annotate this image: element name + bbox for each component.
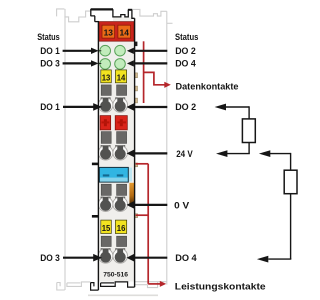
svg-text:13: 13 <box>104 27 114 37</box>
power jumper contact left lower (blade) <box>92 215 99 218</box>
label plate (red) <box>99 22 134 42</box>
data contact 1 (gold) <box>135 73 138 78</box>
LED DO2 <box>115 45 126 56</box>
svg-text:Status: Status <box>175 32 198 43</box>
clamp contact 0V right <box>113 197 128 212</box>
load circuit 2: arrow to 24V <box>259 150 270 157</box>
svg-text:750-516: 750-516 <box>103 272 128 279</box>
LED DO4 <box>115 59 126 70</box>
wire <box>268 258 291 260</box>
wire <box>248 143 250 154</box>
power jumper contact right lower (spring) <box>135 214 138 218</box>
arrow status DO2 (right) <box>127 48 134 54</box>
DIN rail edge (faint) <box>88 294 158 296</box>
arrow clamp DO4 (right) <box>127 254 135 262</box>
arrow status DO3 (left) <box>63 62 91 64</box>
svg-text:DO 1: DO 1 <box>40 46 60 57</box>
load circuit 1: arrow to 24V <box>216 150 227 157</box>
adjacent module outline left (gray) <box>57 9 91 290</box>
load circuit 2: arrow to DO4 <box>257 256 268 263</box>
clamp contact DO3 <box>98 248 113 263</box>
terminal label 14 (yellow) <box>115 70 126 83</box>
svg-text:DO 3: DO 3 <box>40 253 60 264</box>
svg-text:DO 4: DO 4 <box>175 59 196 70</box>
adjacent module outline right (gray) <box>132 9 172 287</box>
data contacts pointer (red) <box>144 41 165 103</box>
module body <box>98 21 134 282</box>
clamp contact DO1 <box>98 97 113 112</box>
marker 14 (orange) <box>118 25 131 38</box>
svg-text:0 V: 0 V <box>174 200 190 211</box>
power jumper contact left upper (blade) <box>92 163 99 166</box>
wire entry 0V row <box>101 184 111 195</box>
wire entry 13 <box>101 85 111 96</box>
arrow clamp DO3 (left) <box>63 257 94 259</box>
data contact 2 (gold) <box>135 86 138 91</box>
terminal label 16 (yellow) <box>115 220 126 233</box>
module outline (black) <box>91 9 135 290</box>
clamp contact 24V right <box>113 145 128 160</box>
power contacts pointer (red) <box>136 164 160 284</box>
red insert left <box>100 116 111 130</box>
load resistor 1 <box>242 119 255 143</box>
wire entry DO3/DO4 row <box>101 236 111 246</box>
terminal label 13 (yellow) <box>101 70 112 83</box>
svg-text:16: 16 <box>117 224 126 233</box>
wire entry 14 <box>117 85 127 96</box>
svg-text:DO 2: DO 2 <box>175 46 196 57</box>
svg-text:DO 3: DO 3 <box>40 59 60 70</box>
data contact 3 (gold) <box>135 98 138 103</box>
wire <box>225 106 249 108</box>
power jumper contact right upper (spring) <box>135 163 138 167</box>
wire <box>248 106 250 119</box>
arrow clamp 0V (right) <box>127 201 135 209</box>
wire <box>290 194 292 259</box>
wire <box>290 153 292 170</box>
arrow status DO4 (right) <box>127 60 134 66</box>
svg-text:DO 4: DO 4 <box>175 253 197 264</box>
clamp contact 0V left <box>98 197 113 212</box>
terminal label 15 (yellow) <box>101 220 112 233</box>
data contact (black, top) <box>135 42 138 47</box>
arrow clamp 24V (right) <box>127 150 135 158</box>
LED DO1 <box>100 45 111 56</box>
svg-text:Datenkontakte: Datenkontakte <box>176 82 239 93</box>
svg-text:Status: Status <box>37 32 60 43</box>
load circuit 1: arrow to DO2 <box>215 104 226 111</box>
svg-text:24 V: 24 V <box>176 149 193 160</box>
marker 13 (orange) <box>102 25 115 38</box>
wire entry 24V row <box>101 132 111 144</box>
blue actuation insert <box>128 168 132 182</box>
load resistor 2 <box>284 170 297 194</box>
svg-text:14: 14 <box>117 73 126 82</box>
svg-text:DO 2: DO 2 <box>175 102 196 113</box>
wire <box>269 153 290 155</box>
svg-text:13: 13 <box>102 73 111 82</box>
svg-text:DO 1: DO 1 <box>40 102 60 113</box>
svg-text:Leistungskontakte: Leistungskontakte <box>175 282 266 293</box>
arrow clamp DO1 (left) <box>63 106 94 108</box>
wire <box>227 153 250 155</box>
red insert right <box>115 116 127 130</box>
clamp contact 24V left <box>98 145 113 160</box>
clamp contact DO2 <box>113 97 128 112</box>
arrow status DO1 (left) <box>63 50 91 52</box>
svg-text:14: 14 <box>120 27 130 37</box>
svg-text:15: 15 <box>102 224 111 233</box>
LED DO3 <box>100 59 111 70</box>
clamp contact DO4 <box>113 248 128 263</box>
arrow clamp DO2 (right) <box>127 103 135 111</box>
